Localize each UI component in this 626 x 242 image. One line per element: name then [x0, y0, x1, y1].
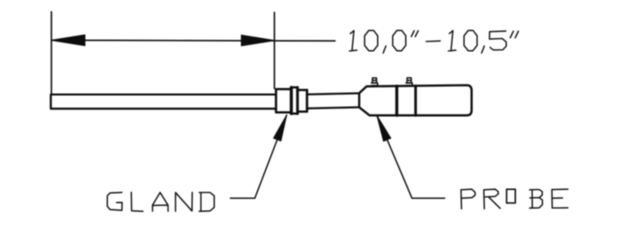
digit 1	[349, 31, 357, 51]
letter E	[552, 189, 568, 208]
rod sheath	[51, 95, 276, 109]
decimal point	[383, 46, 386, 53]
extension line right	[273, 12, 275, 88]
inch marks	[510, 31, 518, 38]
leader line GLAND	[230, 115, 286, 198]
leader arrow GLAND	[274, 115, 287, 141]
gland body	[276, 89, 291, 112]
extension line left	[50, 12, 52, 95]
leader arrow PROBE	[377, 116, 391, 141]
dimension line	[51, 39, 335, 42]
gland ring 2	[298, 90, 308, 112]
dimension arrow right	[241, 35, 274, 46]
inch marks	[411, 31, 418, 37]
probe divider 2	[414, 86, 417, 116]
letter P	[461, 189, 475, 209]
letter B	[530, 190, 543, 209]
dimension arrow left	[51, 35, 85, 46]
digit 5	[490, 31, 507, 50]
letter N	[176, 192, 193, 211]
letter R	[484, 189, 500, 209]
tube	[308, 93, 359, 108]
letter L	[131, 192, 143, 211]
probe body	[359, 85, 471, 115]
decimal point	[482, 46, 485, 53]
gland ring 1	[291, 87, 297, 113]
digit 1	[448, 31, 456, 51]
letter G	[107, 192, 122, 210]
label PROBE	[461, 189, 568, 209]
small square (O)	[507, 189, 516, 203]
screw 1	[371, 78, 377, 86]
letter D	[199, 193, 214, 212]
dash	[426, 40, 440, 43]
digit 0	[365, 30, 378, 50]
probe divider 1	[395, 86, 398, 115]
gland ring 1 right edge	[296, 87, 299, 113]
gland ring 2 right edge	[306, 90, 308, 112]
letter A	[153, 193, 169, 212]
digit 0	[464, 30, 477, 50]
digit 0	[393, 30, 406, 50]
dimension text 10.0"-10.5"	[349, 30, 518, 53]
gland body right edge	[290, 87, 293, 113]
leader line PROBE	[377, 116, 445, 198]
screw 2	[406, 78, 412, 86]
label GLAND	[107, 192, 214, 211]
